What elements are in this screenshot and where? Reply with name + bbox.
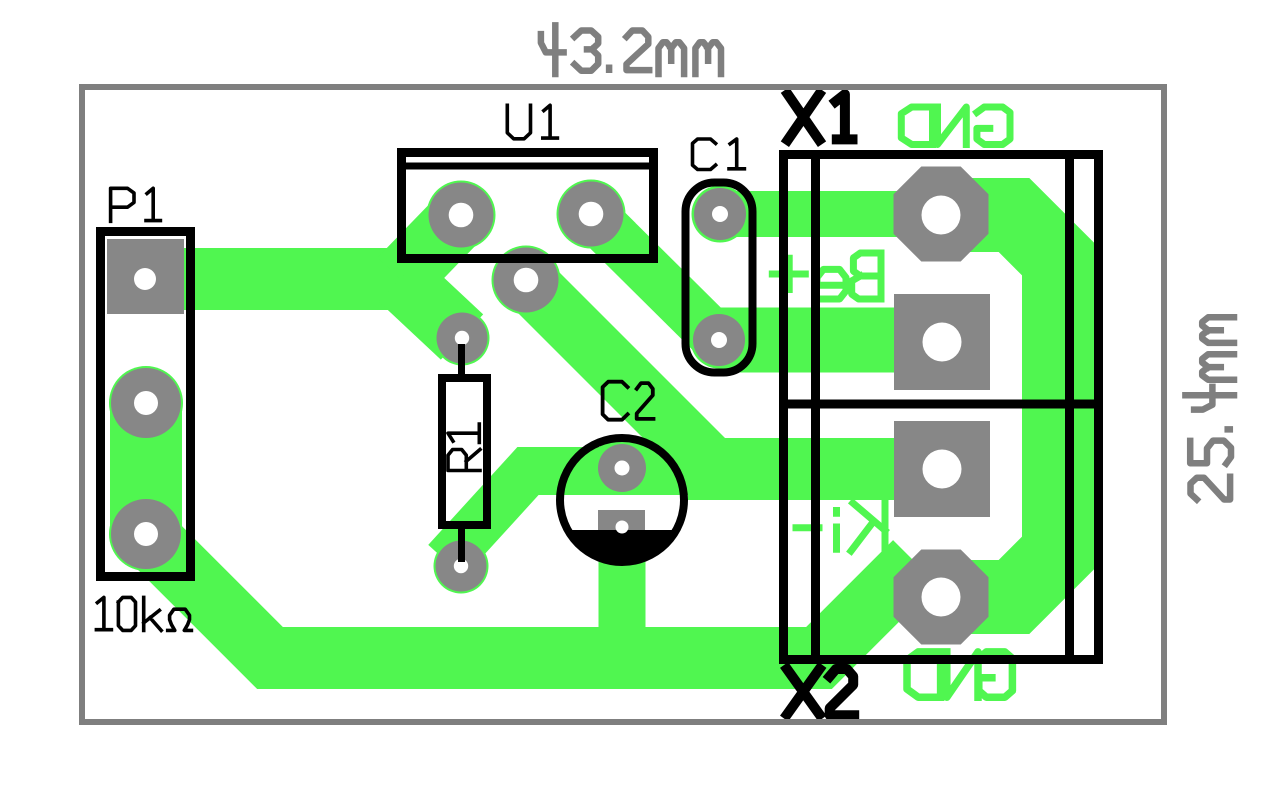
label C1: [693, 139, 745, 170]
copper halos under pads: [109, 180, 749, 594]
wire C1.2 to X1 square pad (Be+): [719, 308, 942, 373]
wire C2 minus pad stem down to bottom band: [599, 516, 646, 658]
hole R1.1: [455, 331, 469, 345]
halo C1 pad1: [692, 186, 749, 243]
capacitor C1 outline: [686, 183, 753, 373]
C2 white minus strip: [556, 495, 688, 530]
wire R1.2 diagonal up-right then band to C2 plus pad: [446, 471, 624, 561]
capacitor C2 overlays: [556, 438, 688, 562]
connector inner right line: [1065, 150, 1074, 664]
drill holes white: [134, 196, 962, 617]
wire net P1.1: band from P1 pad1 to junction: [146, 248, 402, 310]
label R1 (rotated): [448, 424, 480, 471]
wire P1.2 to P1.3 vertical (wide): [110, 403, 182, 534]
connector inner left line: [811, 150, 820, 664]
wire U1.2 diagonal down-right joining Ki- band: [526, 280, 717, 471]
pad P1.2: [111, 368, 181, 438]
connector X1/X2 outer outline: [784, 155, 1099, 660]
hole U1.1: [449, 203, 474, 228]
wire GND: P1.2 down, P1.3 diagonal, bottom band, diagonal up to X2 octagon: [146, 400, 915, 658]
IC U1 outline: [402, 153, 654, 259]
label P1: [111, 188, 161, 221]
value label 10k ohm: [96, 597, 191, 630]
halo C2 plus pad: [596, 442, 649, 495]
wire C1.1 to X1 octagon pad (GND): [720, 191, 941, 237]
halo R1 pad2: [434, 539, 489, 594]
wire U1.3 diagonal to C1.2: [591, 214, 719, 341]
pad U1.3: [559, 182, 624, 247]
halo P1 pad2: [109, 366, 183, 440]
hole U1.2: [514, 268, 539, 293]
silkscreen black: [101, 150, 1104, 664]
hole P1.3: [134, 522, 158, 546]
wire junction to U1 pad1 (45 deg up): [400, 216, 461, 279]
label U1: [507, 105, 557, 139]
hole X1 square: [923, 323, 962, 362]
dimension 25.4mm right (rotated): [1185, 317, 1234, 499]
halo P1 pad3: [109, 497, 183, 571]
potentiometer P1 outline: [101, 232, 191, 577]
pad R1.1: [437, 313, 488, 364]
pad C1.2: [693, 314, 745, 366]
wire C2 plus pad to X2 square pad (Ki-): [600, 438, 942, 500]
hole X2 octagon: [922, 578, 961, 617]
pad U1.2: [494, 248, 559, 313]
hole U1.3: [579, 202, 604, 227]
pad X2 octagon (GND): [894, 550, 989, 645]
C2 minus square pad: [598, 510, 645, 552]
net label GND (mirrored) top: [901, 107, 1010, 145]
R1 bottom lead: [458, 527, 465, 562]
hole X2 square: [923, 450, 962, 489]
hole C1.2: [711, 332, 727, 348]
board outline: [82, 87, 1164, 722]
label X1 bold: [788, 94, 853, 140]
label X2 bold: [787, 669, 854, 715]
C2 black bottom segment: [568, 530, 677, 562]
resistor R1 outline: [442, 378, 487, 525]
pad P1.1 square: [107, 239, 184, 314]
pad U1.1: [429, 183, 494, 248]
hole P1.1: [134, 268, 156, 290]
U1 inner top line: [403, 163, 651, 170]
pad X1 square (Be+): [894, 294, 990, 390]
halo C1 pad2: [691, 312, 748, 369]
pad R1.2: [436, 541, 487, 592]
pad C2 plus: [598, 444, 646, 492]
hole X1 octagon: [922, 196, 961, 235]
halo U1 pad3: [557, 180, 626, 249]
halo U1 pad1: [427, 181, 496, 250]
wire junction to R1 pad1 (45 deg down): [400, 279, 462, 337]
label C2: [603, 382, 654, 420]
pad C1.1: [694, 188, 746, 240]
net label GND (mirrored) bottom: [907, 652, 1012, 697]
hole P1.2: [134, 391, 158, 415]
connector X1/X2 divider line: [779, 400, 1103, 409]
hole C2 minus: [616, 521, 629, 534]
pad P1.3: [111, 499, 181, 569]
capacitor C2 outline: [560, 438, 684, 562]
pad X2 square (Ki-): [894, 421, 990, 517]
R1 top lead: [458, 344, 465, 376]
wire X1 octagon right then GND bus down to X2 octagon (mitered): [941, 215, 1059, 597]
halo R1 pad1: [435, 311, 490, 366]
net label Be+ (mirrored): [772, 253, 881, 299]
halo U1 pad2: [492, 246, 561, 315]
dimension 43.2mm top: [541, 25, 721, 74]
hole C1.1: [712, 206, 728, 222]
hole R1.2: [454, 559, 468, 573]
hole C2 plus: [615, 461, 630, 476]
pads gray: [107, 167, 990, 645]
pad X1 octagon (GND): [894, 167, 989, 262]
net label Ki- (mirrored): [796, 503, 885, 551]
